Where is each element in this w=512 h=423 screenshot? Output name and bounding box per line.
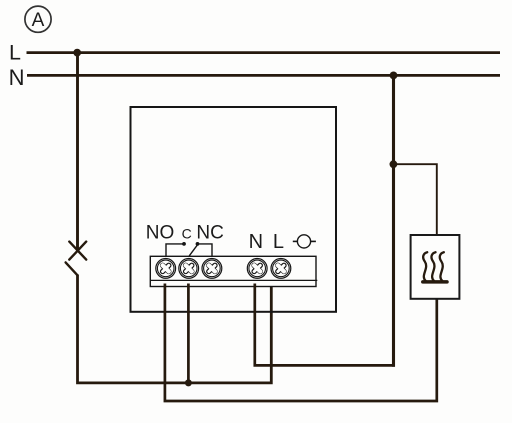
svg-text:L: L [273, 231, 284, 253]
heater E1 element bar [423, 280, 447, 284]
wire: N bus drop on right [392, 75, 395, 366]
wire: N terminal down and across to N drop [255, 284, 395, 366]
junction on N bus (right drop) [390, 72, 398, 80]
junction at C terminal wire on bottom run [185, 379, 192, 386]
wire: switch feed drop from L bus [76, 53, 79, 249]
svg-text:NO: NO [146, 223, 175, 244]
svg-text:NC: NC [196, 223, 223, 244]
terminal block body [150, 256, 316, 286]
wire: L bus line [27, 51, 501, 54]
terminal screw NC [202, 259, 222, 279]
relay contact: NC stationary contact [199, 244, 212, 257]
wire: C terminal down to junction [187, 284, 190, 383]
svg-text:L: L [9, 41, 21, 65]
svg-text:N: N [9, 65, 25, 90]
terminal screw L [271, 259, 291, 279]
heater E1 steam wave 3 [440, 252, 444, 281]
terminal block flange line [150, 279, 317, 281]
heater E1 box [411, 235, 460, 299]
wire: switch output down, across bottom to thermostat L terminal [78, 275, 272, 383]
relay contact: common lever from C [189, 245, 197, 256]
svg-text:A: A [32, 10, 45, 31]
switch S1 contact cross [69, 242, 86, 260]
svg-text:N: N [249, 231, 263, 253]
relay contact: NO stationary contact [166, 244, 183, 257]
heater E1 steam wave 1 [423, 252, 427, 281]
junction on N drop (heater feed) [390, 160, 398, 168]
svg-text:C: C [182, 226, 192, 242]
wire: N bus line [27, 74, 500, 77]
wire: NO terminal down and across to heater return [165, 284, 437, 402]
wire: heater feed from N drop [394, 164, 437, 235]
junction on L bus (switch feed) [73, 49, 81, 57]
terminal screw C [179, 259, 199, 279]
heater E1 steam wave 2 [431, 252, 435, 281]
terminal screw NO [156, 259, 176, 279]
terminal screw N [247, 259, 267, 279]
diagram label A (circled) [25, 6, 51, 32]
switch S1 lever [66, 262, 78, 275]
lamp indicator symbol [293, 235, 316, 248]
thermostat U1 enclosure [131, 107, 337, 312]
